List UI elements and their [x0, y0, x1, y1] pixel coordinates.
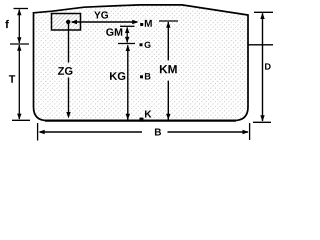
B beam dimension arrow — [37, 123, 39, 141]
label B point — [145, 73, 151, 79]
point K (keel) dot — [140, 118, 144, 122]
label ZG — [58, 67, 72, 75]
f freeboard dimension arrow — [14, 8, 29, 10]
GM dimension arrow — [120, 25, 135, 27]
point B (centre of buoyancy) dot — [140, 75, 143, 78]
waterline tick right — [248, 44, 273, 46]
YG shift arrow (double-headed) — [72, 21, 137, 23]
point G (centre of gravity) dot — [140, 43, 143, 46]
label KG — [110, 72, 125, 80]
cargo weight rectangle — [52, 14, 81, 31]
cargo centre dot g — [66, 20, 70, 24]
label B beam — [155, 129, 161, 136]
point M (metacentre) dot — [140, 23, 143, 26]
label YG — [94, 11, 108, 18]
keel baseline (thick bottom line) — [45, 119, 236, 121]
T draught dimension arrow — [18, 45, 20, 119]
KM dimension arrow — [159, 20, 178, 22]
hull cross-section outline (hatched) — [34, 5, 249, 121]
label K — [145, 111, 152, 118]
label T — [9, 75, 15, 82]
label f — [5, 20, 9, 28]
ZG drop arrow — [68, 24, 70, 63]
D depth dimension arrow — [254, 11, 273, 13]
label GM — [106, 28, 122, 36]
label M — [145, 20, 152, 27]
label KM — [160, 65, 177, 73]
G level tick — [118, 43, 135, 45]
waterline tick left — [10, 43, 29, 45]
label D — [265, 63, 271, 69]
label G — [145, 42, 151, 48]
KG dimension arrow — [127, 45, 129, 119]
